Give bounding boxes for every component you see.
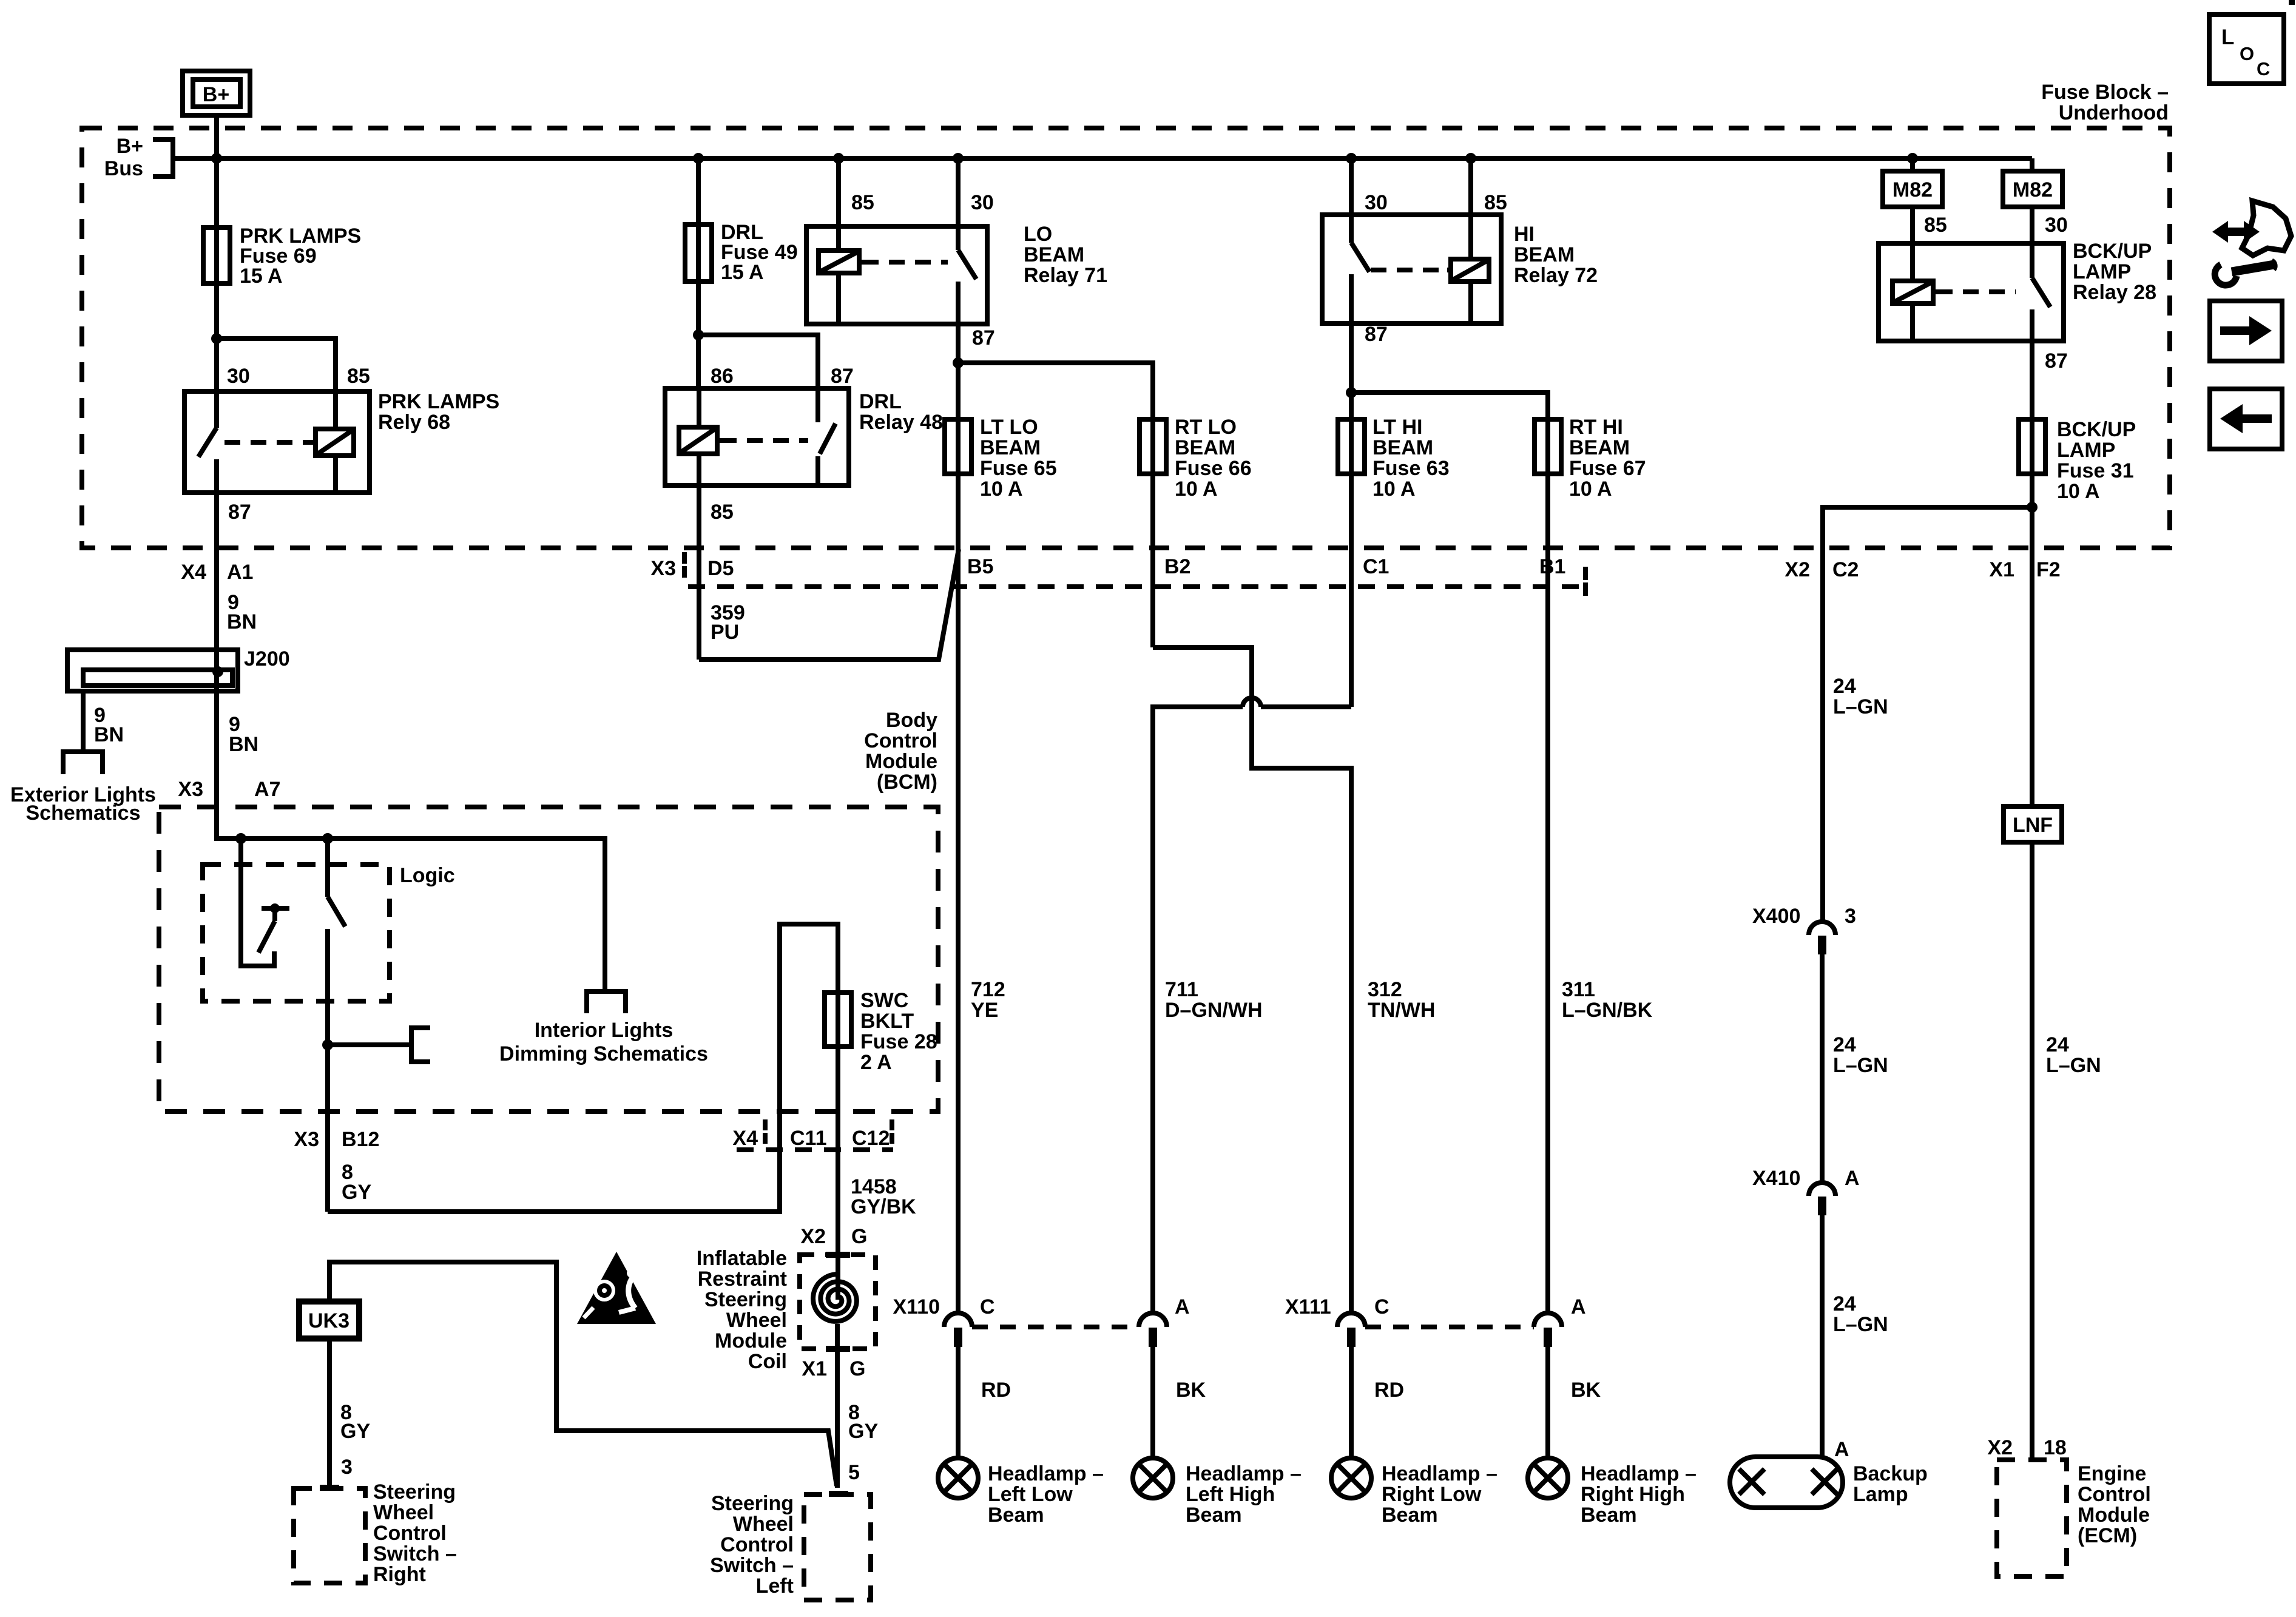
svg-text:L–GN/BK: L–GN/BK xyxy=(1562,999,1653,1022)
svg-text:X111: X111 xyxy=(1285,1295,1331,1318)
svg-text:Relay 28: Relay 28 xyxy=(2073,281,2156,304)
svg-text:TN/WH: TN/WH xyxy=(1368,999,1435,1022)
svg-text:X3: X3 xyxy=(650,557,676,580)
svg-text:10 A: 10 A xyxy=(2057,480,2100,503)
svg-text:B2: B2 xyxy=(1164,555,1190,578)
svg-text:Fuse Block –: Fuse Block – xyxy=(2041,81,2169,104)
svg-text:X410: X410 xyxy=(1752,1167,1800,1190)
svg-text:Dimming Schematics: Dimming Schematics xyxy=(499,1042,708,1065)
svg-text:10 A: 10 A xyxy=(980,478,1023,501)
svg-text:BEAM: BEAM xyxy=(1373,436,1433,459)
svg-text:Left High: Left High xyxy=(1186,1483,1275,1506)
svg-text:Engine: Engine xyxy=(2078,1462,2146,1485)
svg-text:BK: BK xyxy=(1571,1379,1601,1402)
svg-text:LT LO: LT LO xyxy=(980,416,1038,439)
svg-text:Steering: Steering xyxy=(711,1492,794,1515)
svg-text:Headlamp –: Headlamp – xyxy=(1581,1462,1697,1485)
svg-text:B+: B+ xyxy=(203,83,229,106)
svg-text:Left Low: Left Low xyxy=(988,1483,1073,1506)
svg-text:86: 86 xyxy=(711,365,734,388)
svg-text:Steering: Steering xyxy=(373,1480,456,1504)
svg-text:Control: Control xyxy=(373,1522,447,1545)
svg-text:30: 30 xyxy=(1365,191,1388,214)
svg-text:B12: B12 xyxy=(342,1128,379,1151)
svg-text:2 A: 2 A xyxy=(860,1051,892,1074)
svg-text:GY/BK: GY/BK xyxy=(851,1195,916,1218)
svg-text:D5: D5 xyxy=(707,557,734,580)
svg-text:Left: Left xyxy=(756,1575,794,1598)
svg-text:Rely 68: Rely 68 xyxy=(378,411,450,434)
svg-text:87: 87 xyxy=(1365,323,1388,346)
svg-text:30: 30 xyxy=(971,191,994,214)
svg-text:X4: X4 xyxy=(732,1127,758,1150)
svg-text:87: 87 xyxy=(831,365,854,388)
svg-text:X4: X4 xyxy=(181,561,206,584)
svg-text:30: 30 xyxy=(2045,214,2068,237)
svg-text:Fuse 63: Fuse 63 xyxy=(1373,457,1450,480)
svg-text:C12: C12 xyxy=(852,1127,890,1150)
svg-text:L–GN: L–GN xyxy=(1833,1313,1888,1336)
svg-text:RT HI: RT HI xyxy=(1569,416,1623,439)
svg-text:Coil: Coil xyxy=(748,1350,787,1373)
svg-text:24: 24 xyxy=(1833,1033,1856,1056)
svg-text:X3: X3 xyxy=(178,778,203,801)
svg-text:L: L xyxy=(2221,25,2234,49)
svg-text:C: C xyxy=(2257,58,2270,79)
svg-text:C1: C1 xyxy=(1363,555,1389,578)
svg-text:BEAM: BEAM xyxy=(980,436,1041,459)
svg-text:X110: X110 xyxy=(893,1295,940,1318)
svg-text:M82: M82 xyxy=(1893,178,1933,201)
svg-text:(ECM): (ECM) xyxy=(2078,1524,2137,1547)
svg-text:D–GN/WH: D–GN/WH xyxy=(1165,999,1263,1022)
svg-text:Beam: Beam xyxy=(1581,1504,1637,1527)
svg-text:RD: RD xyxy=(1374,1379,1404,1402)
svg-text:Right High: Right High xyxy=(1581,1483,1685,1506)
svg-text:87: 87 xyxy=(2045,349,2068,373)
svg-text:X400: X400 xyxy=(1752,905,1800,928)
svg-text:Fuse 67: Fuse 67 xyxy=(1569,457,1646,480)
svg-text:Module: Module xyxy=(715,1329,787,1352)
svg-text:PRK LAMPS: PRK LAMPS xyxy=(378,390,499,413)
svg-text:Lamp: Lamp xyxy=(1853,1483,1908,1506)
svg-text:BEAM: BEAM xyxy=(1514,243,1575,266)
svg-text:X1: X1 xyxy=(802,1357,827,1380)
svg-text:BCK/UP: BCK/UP xyxy=(2057,418,2136,441)
svg-text:Module: Module xyxy=(865,750,937,773)
svg-text:Fuse 31: Fuse 31 xyxy=(2057,459,2134,482)
svg-text:BEAM: BEAM xyxy=(1569,436,1630,459)
svg-text:Fuse 28: Fuse 28 xyxy=(860,1030,937,1053)
svg-text:15 A: 15 A xyxy=(721,261,764,284)
svg-text:BN: BN xyxy=(229,733,258,756)
svg-text:O: O xyxy=(2240,43,2254,64)
svg-text:A7: A7 xyxy=(254,778,280,801)
svg-text:LAMP: LAMP xyxy=(2073,260,2131,283)
svg-text:BKLT: BKLT xyxy=(860,1010,914,1033)
svg-text:BN: BN xyxy=(94,723,124,746)
svg-text:3: 3 xyxy=(1845,905,1856,928)
svg-text:Switch –: Switch – xyxy=(373,1542,457,1565)
svg-text:B5: B5 xyxy=(967,555,993,578)
svg-text:X2: X2 xyxy=(800,1225,826,1248)
svg-text:C11: C11 xyxy=(790,1127,827,1150)
svg-text:LT HI: LT HI xyxy=(1373,416,1422,439)
svg-text:C2: C2 xyxy=(1832,558,1859,581)
svg-text:Body: Body xyxy=(886,709,937,732)
svg-text:10 A: 10 A xyxy=(1569,478,1612,501)
svg-text:B1: B1 xyxy=(1539,555,1565,578)
svg-text:Steering: Steering xyxy=(704,1288,787,1311)
svg-text:A: A xyxy=(1834,1438,1849,1461)
svg-text:Fuse 66: Fuse 66 xyxy=(1175,457,1252,480)
svg-text:G: G xyxy=(851,1225,867,1248)
svg-text:L–GN: L–GN xyxy=(1833,1054,1888,1077)
svg-text:Beam: Beam xyxy=(1186,1504,1242,1527)
svg-text:Fuse 65: Fuse 65 xyxy=(980,457,1057,480)
svg-text:BEAM: BEAM xyxy=(1024,243,1084,266)
svg-text:24: 24 xyxy=(2046,1033,2069,1056)
svg-text:10 A: 10 A xyxy=(1175,478,1218,501)
svg-text:Relay 48: Relay 48 xyxy=(859,411,943,434)
svg-text:Control: Control xyxy=(2078,1483,2151,1506)
svg-text:85: 85 xyxy=(851,191,874,214)
svg-text:Underhood: Underhood xyxy=(2059,101,2169,124)
svg-text:85: 85 xyxy=(1484,191,1507,214)
svg-text:A1: A1 xyxy=(227,561,253,584)
svg-text:UK3: UK3 xyxy=(308,1309,349,1332)
svg-text:Logic: Logic xyxy=(400,864,455,887)
svg-text:B+: B+ xyxy=(116,135,143,158)
svg-text:Headlamp –: Headlamp – xyxy=(1382,1462,1497,1485)
svg-text:Module: Module xyxy=(2078,1504,2150,1527)
svg-text:Schematics: Schematics xyxy=(26,802,141,825)
svg-text:A: A xyxy=(1571,1295,1586,1318)
svg-text:X1: X1 xyxy=(1989,558,2014,581)
svg-text:X2: X2 xyxy=(1987,1436,2013,1459)
svg-text:85: 85 xyxy=(1924,214,1947,237)
svg-text:Headlamp –: Headlamp – xyxy=(1186,1462,1302,1485)
svg-text:15 A: 15 A xyxy=(240,265,283,288)
svg-text:RT LO: RT LO xyxy=(1175,416,1237,439)
svg-text:3: 3 xyxy=(341,1456,353,1479)
svg-text:Wheel: Wheel xyxy=(373,1501,434,1524)
svg-text:Control: Control xyxy=(720,1533,794,1556)
svg-text:10 A: 10 A xyxy=(1373,478,1416,501)
svg-text:LAMP: LAMP xyxy=(2057,439,2115,462)
svg-text:Control: Control xyxy=(864,729,937,752)
svg-text:Wheel: Wheel xyxy=(733,1513,794,1536)
svg-text:C: C xyxy=(1374,1295,1389,1318)
svg-text:PU: PU xyxy=(711,621,739,644)
svg-text:M82: M82 xyxy=(2013,178,2053,201)
svg-text:GY: GY xyxy=(848,1420,878,1443)
svg-text:G: G xyxy=(849,1357,865,1380)
svg-text:85: 85 xyxy=(711,501,734,524)
svg-text:Headlamp –: Headlamp – xyxy=(988,1462,1104,1485)
svg-text:Restraint: Restraint xyxy=(698,1268,787,1291)
svg-text:711: 711 xyxy=(1165,978,1198,1001)
svg-text:Inflatable: Inflatable xyxy=(697,1247,787,1270)
svg-text:85: 85 xyxy=(347,365,370,388)
svg-text:HI: HI xyxy=(1514,223,1535,246)
svg-text:L–GN: L–GN xyxy=(1833,695,1888,718)
svg-text:SWC: SWC xyxy=(860,989,908,1012)
svg-text:A: A xyxy=(1175,1295,1190,1318)
svg-text:5: 5 xyxy=(848,1461,860,1484)
svg-text:Right Low: Right Low xyxy=(1382,1483,1482,1506)
svg-text:GY: GY xyxy=(342,1181,371,1204)
svg-text:(BCM): (BCM) xyxy=(877,771,937,794)
svg-text:X2: X2 xyxy=(1784,558,1810,581)
svg-text:24: 24 xyxy=(1833,1292,1856,1315)
svg-text:DRL: DRL xyxy=(859,390,902,413)
svg-text:24: 24 xyxy=(1833,675,1856,698)
svg-text:87: 87 xyxy=(972,326,995,349)
svg-text:311: 311 xyxy=(1562,978,1595,1001)
svg-text:Relay 72: Relay 72 xyxy=(1514,264,1598,287)
svg-text:BN: BN xyxy=(227,610,257,633)
svg-text:LO: LO xyxy=(1024,223,1052,246)
svg-text:Interior Lights: Interior Lights xyxy=(535,1019,674,1042)
svg-text:RD: RD xyxy=(981,1379,1011,1402)
svg-text:YE: YE xyxy=(971,999,998,1022)
svg-text:Right: Right xyxy=(373,1563,426,1586)
svg-text:BK: BK xyxy=(1176,1379,1206,1402)
svg-text:Beam: Beam xyxy=(1382,1504,1438,1527)
svg-text:C: C xyxy=(980,1295,995,1318)
svg-text:GY: GY xyxy=(340,1420,370,1443)
svg-text:30: 30 xyxy=(227,365,250,388)
svg-text:87: 87 xyxy=(228,501,251,524)
svg-text:Wheel: Wheel xyxy=(726,1309,787,1332)
svg-text:Relay 71: Relay 71 xyxy=(1024,264,1107,287)
svg-text:Backup: Backup xyxy=(1853,1462,1928,1485)
svg-text:18: 18 xyxy=(2044,1436,2067,1459)
svg-text:F2: F2 xyxy=(2036,558,2061,581)
svg-text:X3: X3 xyxy=(294,1128,319,1151)
svg-text:Beam: Beam xyxy=(988,1504,1044,1527)
svg-text:BEAM: BEAM xyxy=(1175,436,1235,459)
svg-text:L–GN: L–GN xyxy=(2046,1054,2101,1077)
svg-text:712: 712 xyxy=(971,978,1005,1001)
svg-text:A: A xyxy=(1845,1167,1860,1190)
svg-text:312: 312 xyxy=(1368,978,1402,1001)
svg-text:BCK/UP: BCK/UP xyxy=(2073,240,2152,263)
svg-text:J200: J200 xyxy=(244,647,290,670)
svg-text:Switch –: Switch – xyxy=(710,1554,794,1577)
svg-text:LNF: LNF xyxy=(2013,814,2053,837)
svg-text:Bus: Bus xyxy=(104,157,143,180)
